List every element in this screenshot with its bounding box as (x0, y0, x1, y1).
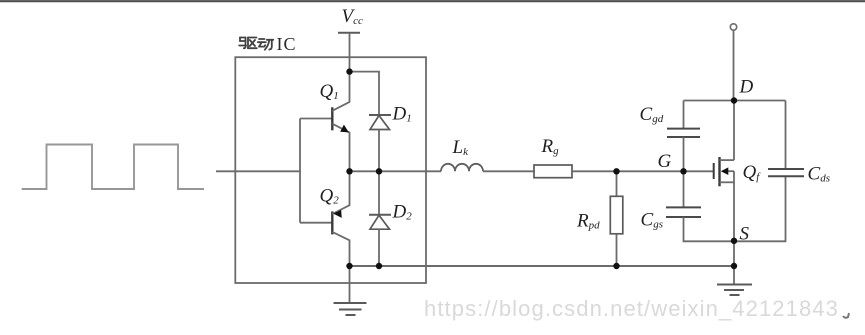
svg-text:G: G (658, 151, 672, 172)
svg-text:Cgs: Cgs (641, 210, 663, 231)
svg-text:S: S (740, 224, 750, 245)
svg-text:Lk: Lk (452, 137, 470, 158)
svg-text:Qf: Qf (743, 162, 762, 183)
svg-text:Rg: Rg (541, 136, 560, 157)
svg-text:D: D (739, 77, 754, 98)
svg-text:https://blog.csdn.net/weixin_4: https://blog.csdn.net/weixin_42121843 (424, 296, 839, 321)
svg-text:IC: IC (277, 34, 297, 54)
svg-text:D2: D2 (392, 202, 413, 223)
svg-text:Vcc: Vcc (342, 6, 363, 27)
svg-text:Cgd: Cgd (640, 104, 664, 125)
svg-text:Q1: Q1 (320, 81, 339, 102)
svg-text:Cds: Cds (808, 164, 830, 185)
svg-text:D1: D1 (392, 104, 412, 125)
svg-text:Q2: Q2 (320, 186, 340, 207)
svg-text:Rpd: Rpd (576, 211, 600, 232)
